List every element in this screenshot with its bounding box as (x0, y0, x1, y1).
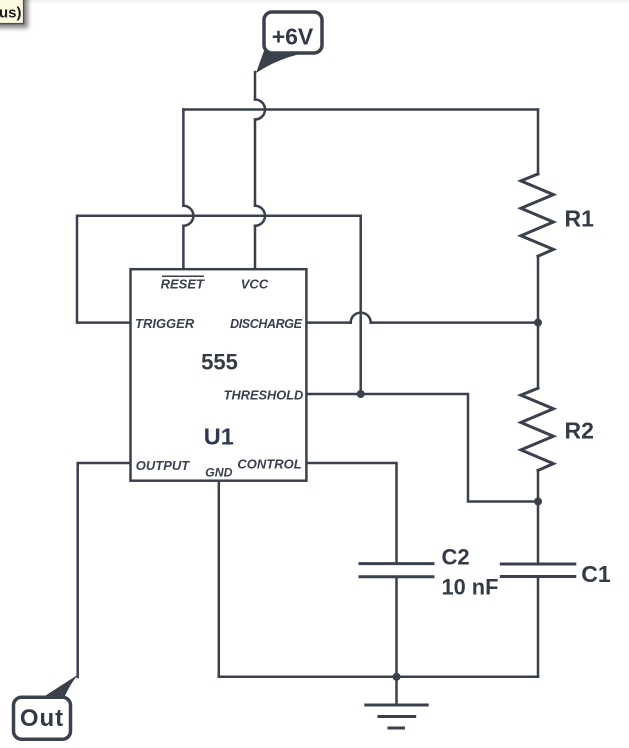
wire C2 bottom plate to bottom rail (395, 577, 398, 677)
capacitor C1 plates (501, 564, 575, 577)
svg-text:OUTPUT: OUTPUT (136, 458, 191, 473)
wire top rail y=109.5 (183, 108, 538, 111)
wire C1 bottom plate to bottom rail (537, 577, 540, 677)
hop of VCC wire over top rail (255, 100, 265, 120)
hop of RESET wire over mid rail (183, 206, 193, 226)
svg-text:THRESHOLD: THRESHOLD (224, 388, 304, 403)
svg-text:555: 555 (201, 349, 238, 374)
wire CONTROL pin right then down to C2 (306, 463, 396, 564)
svg-text:C1: C1 (581, 561, 611, 587)
svg-text:C2: C2 (442, 544, 470, 569)
wire bottom rail y=676.8 (219, 676, 538, 679)
wire THRESHOLD pin right then down to node R2/C1 (306, 394, 538, 502)
wire node to C1 top plate (537, 502, 540, 565)
power flag +6V callout tail (256, 47, 301, 74)
resistor R1 (521, 174, 554, 256)
svg-text:10 nF: 10 nF (442, 574, 499, 599)
wire DISCHARGE node to R2 (537, 323, 540, 389)
svg-text:DISCHARGE: DISCHARGE (230, 317, 302, 331)
wire OUTPUT pin left and down to Out tail (78, 463, 131, 677)
svg-text:RESET: RESET (161, 277, 205, 292)
ground stem (395, 677, 398, 705)
svg-text:us): us) (0, 4, 22, 21)
svg-text:+6V: +6V (272, 23, 314, 49)
node Out callout box (14, 697, 71, 739)
wire right rail top to R1 (537, 110, 540, 175)
node junction dot C2/ground (393, 673, 401, 681)
wire R1 to DISCHARGE node (537, 256, 540, 322)
node Out callout tail (41, 675, 79, 699)
capacitor C2 plates (360, 564, 433, 577)
wire GND pin down to bottom rail (218, 481, 221, 677)
svg-text:R1: R1 (565, 206, 595, 232)
svg-text:TRIGGER: TRIGGER (135, 316, 195, 331)
svg-text:Out: Out (20, 705, 64, 732)
hop of VCC wire over mid rail (255, 206, 265, 226)
power flag +6V callout box (264, 12, 322, 53)
wire R2 to node R2/C1 (537, 470, 540, 501)
ground bars (366, 705, 427, 728)
svg-text:R2: R2 (565, 418, 594, 444)
svg-text:U1: U1 (204, 423, 234, 449)
node junction dot R1/R2/DISCHARGE (534, 319, 542, 327)
wire +6V to VCC pin (vertical x=255, hops at y=109.5 and y=215.8) (254, 72, 257, 269)
svg-text:GND: GND (205, 466, 232, 480)
IC U1 (555 timer) body (131, 269, 307, 481)
hop of DISCHARGE wire over vertical x=360.7 (351, 313, 371, 323)
resistor R2 (521, 388, 554, 470)
svg-text:VCC: VCC (241, 277, 269, 292)
pin label RESET (with overline) (161, 276, 205, 291)
wire mid rail down to THRESHOLD node (vertical x=360.7) (359, 216, 362, 394)
node junction dot R2/C1/THRESHOLD (534, 498, 542, 506)
node junction dot THRESHOLD (357, 390, 365, 398)
tooltip box (0, 0, 24, 24)
tooltip shadow (0, 0, 28, 28)
wire top rail to RESET pin (vertical x=183.4, hop at y=215.8) (182, 110, 185, 270)
wire TRIGGER loop: mid rail y=215.8 from x=360.7 left to x=77, down to TRIGGER pin (77, 216, 361, 323)
svg-text:CONTROL: CONTROL (237, 457, 301, 472)
wire DISCHARGE pin to right rail (hop over x=360.7) (306, 321, 538, 324)
